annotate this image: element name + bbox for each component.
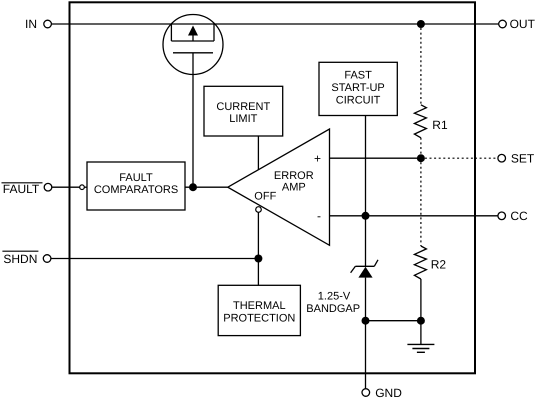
wire node S to OFF bubble: [257, 212, 259, 258]
wire fault comparators to node G: [185, 186, 228, 188]
pin SET terminal: [498, 152, 535, 166]
pin IN terminal: [25, 17, 51, 31]
svg-text:LIMIT: LIMIT: [229, 113, 257, 125]
node bandgap bottom junction: [362, 317, 370, 325]
block THERMAL PROTECTION: [218, 285, 300, 335]
resistor R1: [414, 105, 448, 138]
svg-text:SET: SET: [511, 152, 535, 166]
svg-text:FAST: FAST: [344, 70, 372, 82]
svg-text:R1: R1: [432, 118, 448, 132]
svg-text:+: +: [314, 151, 321, 165]
wire dashed SET node to R2: [420, 162, 422, 246]
pin FAULT terminal: [2, 182, 52, 196]
wire node S to thermal protection: [257, 259, 259, 286]
ground: [407, 321, 434, 353]
svg-text:ERROR: ERROR: [274, 170, 314, 182]
wire dashed R1 to SET node: [420, 138, 422, 158]
wire dashed SET pin stub: [475, 157, 498, 159]
node G gate junction: [189, 183, 197, 191]
pin CC terminal: [498, 209, 528, 223]
wire transistor gate to node G: [192, 53, 194, 187]
wire error amp minus input to CC: [330, 215, 476, 217]
svg-text:-: -: [317, 209, 321, 223]
svg-text:SHDN: SHDN: [3, 252, 37, 266]
svg-text:CC: CC: [510, 209, 528, 223]
svg-text:OFF: OFF: [254, 190, 276, 202]
node R2 ground junction: [417, 317, 425, 325]
svg-text:THERMAL: THERMAL: [233, 300, 286, 312]
wire SHDN to node S: [51, 258, 259, 260]
IC boundary box: [70, 2, 476, 373]
block CURRENT LIMIT: [204, 86, 283, 136]
pin SHDN terminal: [2, 251, 50, 266]
label 1.25-V BANDGAP: [306, 290, 360, 314]
pin GND terminal: [362, 386, 402, 400]
svg-text:FAULT: FAULT: [3, 182, 40, 196]
wire FAULT to bubble: [52, 186, 80, 188]
svg-text:COMPARATORS: COMPARATORS: [94, 184, 178, 196]
svg-text:AMP: AMP: [282, 182, 306, 194]
wire bandgap bottom to R2 ground node: [366, 320, 421, 322]
wire dashed SET node to border: [425, 157, 475, 159]
node FAULT input bubble: [80, 185, 85, 190]
pin OUT terminal: [499, 17, 535, 31]
wire error amp plus input to SET node: [330, 157, 421, 159]
wire bandgap node to GND pin: [365, 321, 367, 389]
svg-text:START-UP: START-UP: [331, 82, 384, 94]
diode D1 bandgap zener: [351, 216, 378, 321]
wire fast start-up to bandgap node: [365, 116, 367, 216]
svg-text:OUT: OUT: [510, 17, 535, 31]
node bandgap minus junction: [362, 212, 370, 220]
node OUT junction: [417, 20, 425, 28]
svg-text:R2: R2: [431, 258, 447, 272]
node SET junction: [417, 154, 425, 162]
node OFF bubble: [256, 207, 262, 213]
svg-text:GND: GND: [375, 386, 402, 400]
wire transistor drain to OUT: [214, 23, 475, 25]
svg-text:1.25-V: 1.25-V: [318, 290, 351, 302]
wire R2 to ground node: [420, 279, 422, 321]
svg-text:FAULT: FAULT: [119, 172, 153, 184]
wire IN to transistor: [51, 23, 171, 25]
wire current limit to error amp: [257, 136, 259, 170]
resistor R2: [414, 246, 446, 279]
svg-text:CURRENT: CURRENT: [216, 101, 270, 113]
block FAULT COMPARATORS: [87, 162, 185, 210]
wire CC pin stub: [475, 215, 499, 217]
svg-text:CIRCUIT: CIRCUIT: [336, 94, 381, 106]
wire dashed OUT node to R1: [420, 28, 422, 105]
wire bubble to fault comparators: [84, 186, 87, 188]
transistor Q1 PMOS pass element: [163, 15, 223, 75]
svg-text:BANDGAP: BANDGAP: [306, 303, 360, 315]
svg-text:IN: IN: [25, 17, 37, 31]
wire OUT pin stub: [475, 23, 499, 25]
svg-text:PROTECTION: PROTECTION: [223, 312, 295, 324]
op-amp U1 error amplifier: [228, 129, 330, 245]
node S shutdown junction: [254, 255, 262, 263]
block FAST START-UP CIRCUIT: [319, 62, 397, 115]
